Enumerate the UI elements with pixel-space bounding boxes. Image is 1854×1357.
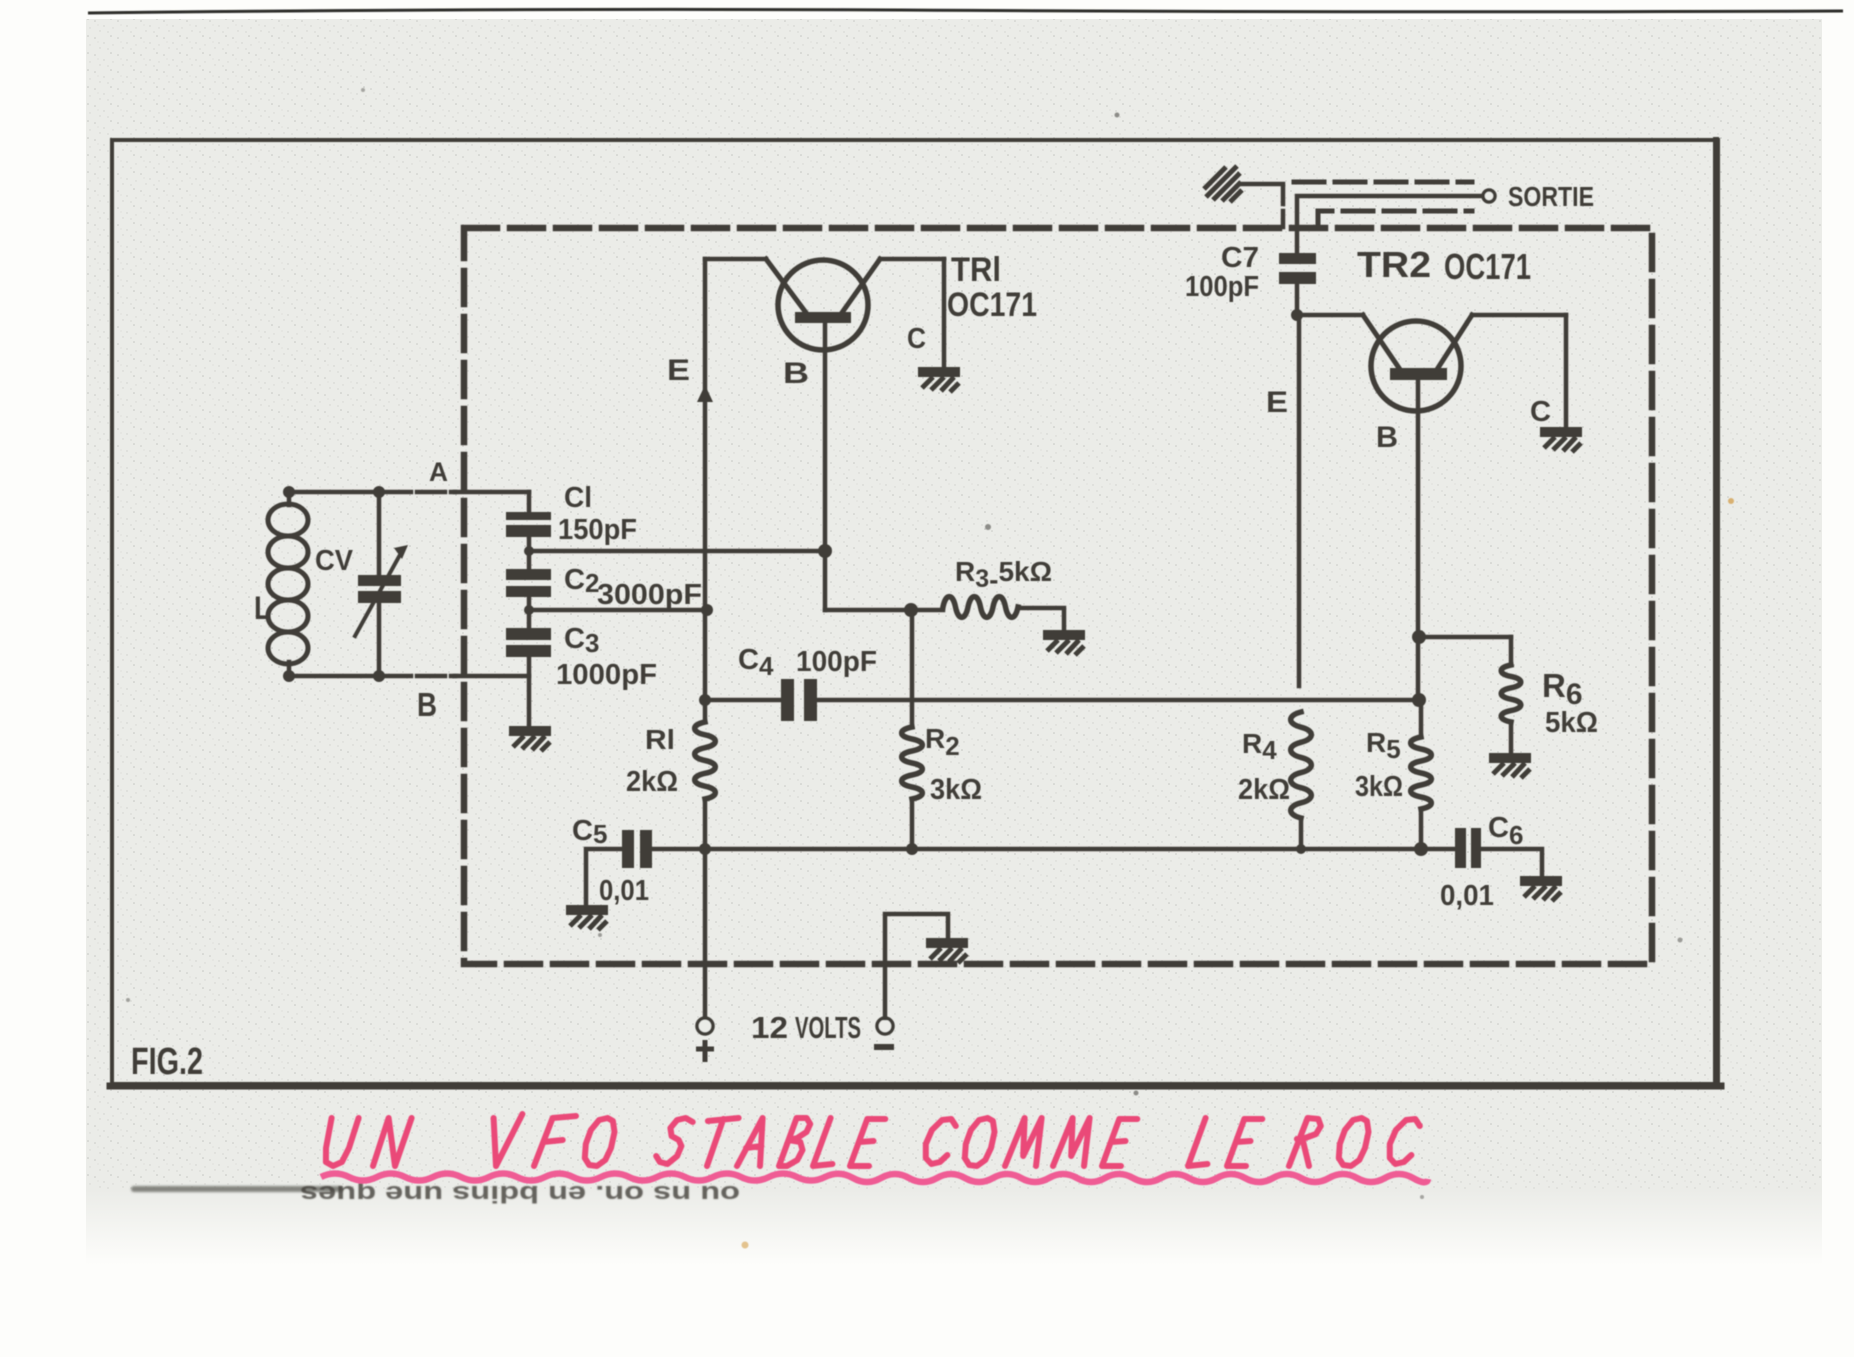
ground bus wire [652, 847, 1455, 852]
svg-text:B: B [417, 686, 437, 723]
capacitor C6 [1455, 828, 1466, 868]
svg-text:C3: C3 [564, 623, 599, 658]
ground under R3 [1043, 630, 1085, 655]
svg-text:B: B [1376, 421, 1398, 454]
TR1 base column [823, 323, 828, 610]
junction TR2 emitter C7 [1291, 309, 1303, 321]
resistor R3 [943, 597, 1018, 618]
junction R6 tap [1412, 630, 1426, 644]
ground near minus terminal [926, 938, 968, 963]
capacitor C1 [527, 492, 532, 512]
handwritten underline [321, 1174, 1428, 1183]
wire TR1 emitter top [705, 257, 766, 262]
junction C1 C2 [524, 546, 534, 556]
wire C1-C2 junction to TR1 base [529, 549, 825, 554]
node B dashed wire [383, 674, 455, 679]
svg-text:A: A [429, 457, 448, 487]
coax shield dashed bottom [1318, 211, 1472, 227]
svg-text:SORTIE: SORTIE [1508, 181, 1594, 212]
ground at TR1 collector [918, 367, 960, 392]
svg-text:5kΩ: 5kΩ [1545, 707, 1598, 739]
minus sign [874, 1044, 894, 1050]
resistor R5 [1419, 700, 1424, 737]
wire to R6 [1421, 635, 1511, 640]
wire A to C1 [455, 490, 529, 495]
svg-text:C2: C2 [564, 564, 599, 598]
wire TR1 base to R2 R3 node [825, 608, 943, 613]
junction node CV bottom [373, 670, 385, 682]
svg-text:TR2: TR2 [1357, 244, 1431, 285]
svg-text:Cl: Cl [564, 482, 592, 514]
capacitor C5 [622, 830, 634, 868]
svg-text:OC171: OC171 [947, 286, 1037, 324]
junction node CV top [373, 486, 385, 498]
handwritten title UN VFO STABLE COMME LE ROC [326, 1114, 1420, 1166]
emitter arrow TR1 [697, 385, 713, 402]
svg-text:CV: CV [315, 545, 354, 577]
resistor R2 [910, 610, 915, 727]
junction base TR1 at C1 wire [818, 544, 832, 558]
resistor R4 [1291, 712, 1312, 818]
transistor TR1 [778, 260, 868, 350]
svg-text:2kΩ: 2kΩ [626, 766, 678, 798]
svg-text:FIG.2: FIG.2 [131, 1041, 203, 1083]
TR2 emitter column to R4 [1297, 315, 1302, 686]
inductor L [287, 492, 292, 505]
capacitor C7 [1279, 253, 1316, 264]
junction node L top [283, 486, 295, 498]
junction ground bus R2 [906, 843, 918, 855]
print-through mirrored text [300, 1180, 740, 1207]
wire C2-C3 junction to emitter column [529, 608, 706, 613]
junction ground bus R1 [699, 843, 711, 855]
TR1 collector to ground [942, 259, 947, 367]
svg-text:0,01: 0,01 [599, 875, 649, 907]
inner dashed shield box [464, 228, 1652, 964]
svg-text:1000pF: 1000pF [556, 659, 657, 691]
wire L top to CV [289, 490, 379, 495]
emitter column wire TR1 [703, 259, 708, 722]
resistor R6 [1509, 637, 1514, 665]
outer solid border frame [112, 140, 1718, 1084]
svg-text:100pF: 100pF [1185, 271, 1259, 303]
junction ground bus R5 [1414, 842, 1428, 856]
resistor R1 [695, 722, 716, 799]
plus sign [696, 1040, 714, 1062]
junction node L bottom [283, 670, 295, 682]
junction emitter column at C2 wire [701, 604, 713, 616]
wire R3 to ground [1018, 608, 1064, 630]
wire to +12V terminal [703, 849, 708, 1018]
svg-text:C7: C7 [1221, 242, 1259, 274]
wire L bottom to CV [289, 674, 379, 679]
ground under R6 [1489, 753, 1531, 778]
node A dashed wire [383, 490, 455, 495]
-12V terminal [877, 1018, 893, 1034]
wire B to C3 column [455, 674, 529, 679]
svg-text:C5: C5 [572, 815, 607, 849]
print-through smear line [131, 1186, 343, 1192]
svg-text:E: E [1266, 386, 1288, 419]
variable capacitor CV [377, 492, 382, 573]
SORTIE coax shield ground [1204, 166, 1242, 202]
svg-text:E: E [667, 354, 690, 387]
junction C4 bus left [699, 694, 711, 706]
svg-text:Rl: Rl [645, 724, 675, 755]
capacitor C3 [506, 628, 551, 640]
svg-text:12: 12 [751, 1010, 788, 1045]
junction R2 R3 base TR1 [904, 603, 918, 617]
capacitor C4 bus [705, 698, 781, 703]
TR2 collector to ground [1564, 315, 1569, 427]
ground under C5 [566, 905, 608, 930]
+12V terminal [697, 1018, 713, 1034]
paper specks [126, 88, 1734, 1249]
svg-text:3kΩ: 3kΩ [930, 774, 982, 806]
ground right of C6 [1520, 876, 1562, 901]
scanner edge line top [88, 9, 1843, 13]
svg-text:C: C [907, 323, 926, 355]
svg-text:ou ns on. en bdins une ques: ou ns on. en bdins une ques [300, 1180, 740, 1207]
ground at TR2 collector [1540, 427, 1582, 452]
svg-text:150pF: 150pF [558, 514, 637, 546]
capacitor C2 [506, 569, 551, 580]
svg-text:100pF: 100pF [796, 646, 877, 678]
svg-text:B: B [783, 357, 809, 390]
junction ground bus R4 [1296, 844, 1306, 854]
ground under C3 [509, 726, 551, 751]
junction C2 C3 [524, 605, 534, 615]
junction C4 bus right TR2 base [1412, 693, 1426, 707]
SORTIE terminal [1483, 190, 1495, 202]
svg-text:VOLTS: VOLTS [795, 1010, 861, 1045]
svg-text:L: L [254, 590, 271, 626]
TR2 base column [1416, 380, 1421, 700]
svg-text:TRl: TRl [951, 251, 1001, 289]
wire -12V to ground [885, 914, 948, 1018]
svg-text:0,01: 0,01 [1440, 880, 1494, 912]
SORTIE line [1297, 196, 1482, 253]
transistor TR2 [1371, 321, 1461, 411]
svg-text:C: C [1530, 396, 1551, 428]
svg-text:2kΩ: 2kΩ [1238, 774, 1290, 806]
svg-text:OC171: OC171 [1444, 246, 1531, 287]
coax shield dashed top [1294, 180, 1472, 185]
TR2 emitter wire [1297, 313, 1363, 318]
svg-text:3kΩ: 3kΩ [1355, 771, 1403, 803]
wire shield ground to box [1241, 182, 1283, 187]
svg-text:3000pF: 3000pF [597, 579, 702, 611]
